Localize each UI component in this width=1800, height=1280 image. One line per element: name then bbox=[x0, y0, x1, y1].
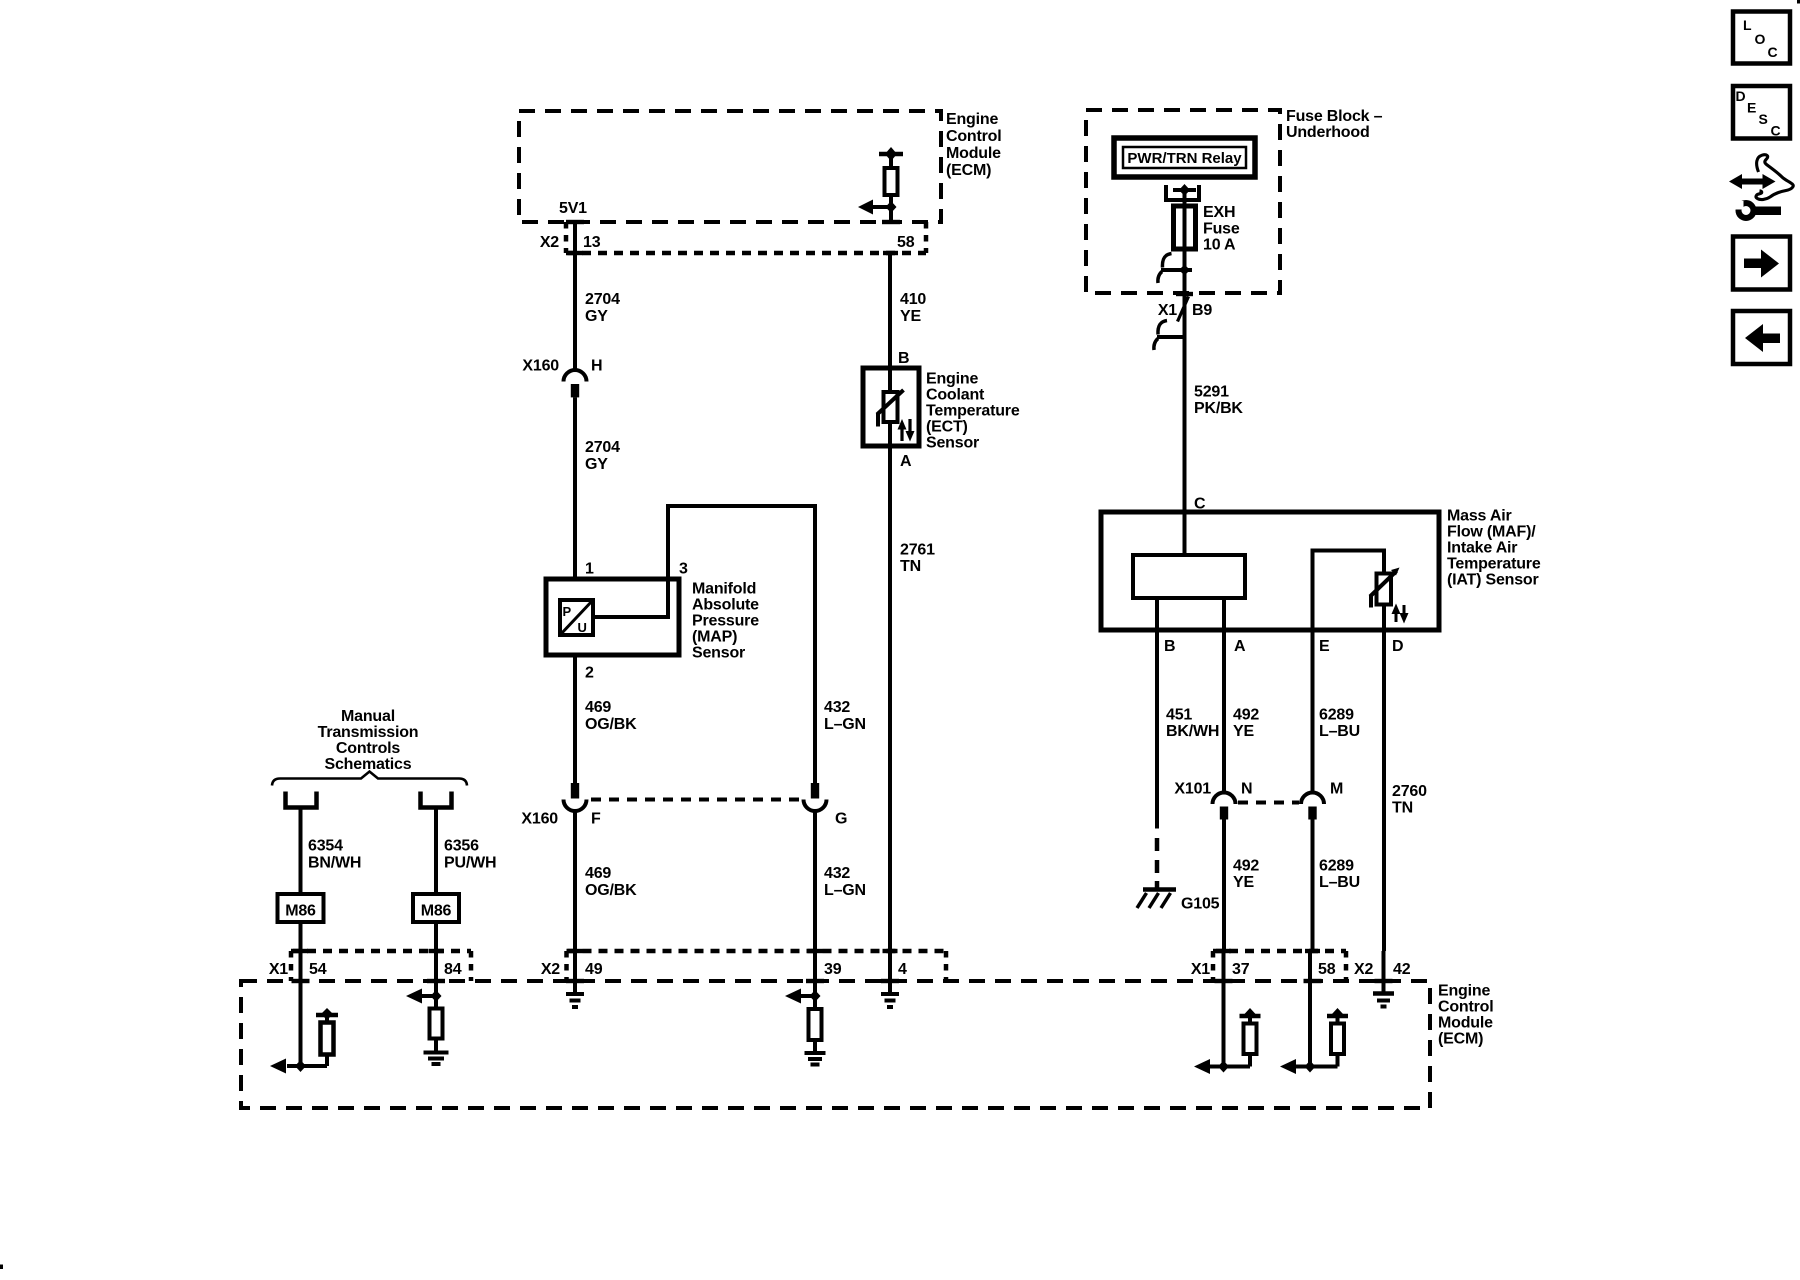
svg-text:TN: TN bbox=[1392, 800, 1413, 817]
connector X2 dotted row bottom bbox=[566, 251, 926, 256]
internal signal arrow at pin 84 bbox=[406, 989, 442, 1004]
svg-text:G: G bbox=[835, 811, 847, 828]
svg-text:E: E bbox=[1747, 100, 1756, 116]
internal pull-up at pin 37 bbox=[1224, 1008, 1261, 1067]
svg-text:58: 58 bbox=[897, 234, 915, 251]
ground G105 bbox=[1137, 890, 1176, 909]
MAF/IAT sensor box bbox=[1101, 512, 1439, 630]
wire 6354 BN/WH upper bbox=[299, 808, 303, 895]
svg-text:2704: 2704 bbox=[585, 291, 620, 308]
wire 2704 GY lower segment bbox=[573, 397, 577, 579]
SECTION: fuse block bbox=[1086, 108, 1383, 513]
wire 6289 L-BU upper bbox=[1311, 630, 1315, 794]
lower terminal hook at B9 bbox=[1154, 321, 1185, 351]
svg-text:469: 469 bbox=[585, 865, 611, 882]
wire 6354 lower bbox=[299, 922, 303, 1066]
svg-text:(MAP): (MAP) bbox=[692, 629, 737, 646]
svg-text:Pressure: Pressure bbox=[692, 613, 759, 630]
svg-text:Sensor: Sensor bbox=[926, 435, 979, 452]
wire 6356 lower bbox=[434, 922, 438, 996]
svg-text:410: 410 bbox=[900, 291, 926, 308]
tick wire 13 at ECM border bbox=[566, 220, 584, 224]
wire pin 37 stub bbox=[1222, 951, 1226, 1067]
wire label 410 YE bbox=[900, 291, 926, 325]
svg-text:37: 37 bbox=[1232, 961, 1250, 978]
splice M86 right bbox=[413, 894, 459, 922]
wire 432 L-GN from pin 3 bbox=[593, 506, 815, 783]
chassis ground at pin 39 bbox=[805, 1053, 826, 1065]
connector X101 pin M male pin bbox=[1308, 807, 1316, 820]
svg-text:L–BU: L–BU bbox=[1319, 723, 1360, 740]
wire pin 39 stub bbox=[813, 951, 817, 996]
svg-text:6289: 6289 bbox=[1319, 707, 1354, 724]
svg-text:C: C bbox=[1768, 44, 1778, 60]
wire 410 YE bbox=[888, 253, 892, 368]
ECT interior wire bbox=[888, 368, 892, 392]
svg-text:A: A bbox=[1234, 638, 1246, 655]
svg-text:Intake Air: Intake Air bbox=[1447, 540, 1517, 557]
connector X160 pin H male pin bbox=[571, 384, 579, 397]
svg-text:B: B bbox=[898, 350, 909, 367]
connector X101 pin N male pin bbox=[1220, 807, 1228, 820]
svg-text:Engine: Engine bbox=[1438, 983, 1490, 1000]
chassis ground at pin 42 bbox=[1373, 994, 1394, 1007]
wire label 2760 TN bbox=[1392, 783, 1427, 817]
svg-text:13: 13 bbox=[583, 234, 601, 251]
svg-text:Sensor: Sensor bbox=[692, 645, 745, 662]
SECTION: ECT branch bbox=[863, 253, 1020, 951]
svg-text:3: 3 bbox=[679, 561, 688, 578]
wire 451 BK/WH solid part bbox=[1155, 630, 1159, 829]
svg-text:D: D bbox=[1736, 88, 1746, 104]
internal signal arrow at pin 58 (bottom) bbox=[1280, 1059, 1316, 1074]
ECT bidirectional arrows bbox=[898, 419, 915, 442]
internal resistor to ground at pin 84 bbox=[430, 996, 443, 1052]
svg-text:Manifold: Manifold bbox=[692, 581, 756, 598]
wire label 6354 BN/WH bbox=[308, 838, 361, 872]
internal pull-up resistor at pin 58 bbox=[885, 168, 898, 195]
svg-text:PWR/TRN Relay: PWR/TRN Relay bbox=[1127, 150, 1242, 167]
svg-text:A: A bbox=[900, 453, 912, 470]
ECT thermistor element bbox=[877, 390, 904, 427]
svg-text:TN: TN bbox=[900, 558, 921, 575]
svg-text:2761: 2761 bbox=[900, 542, 935, 559]
svg-text:BK/WH: BK/WH bbox=[1166, 723, 1219, 740]
wire label 6289 L-BU (upper) bbox=[1319, 707, 1360, 741]
wire pin 4 stub bbox=[888, 951, 892, 994]
wire 451 BK/WH dashed part bbox=[1155, 838, 1160, 888]
svg-text:X1: X1 bbox=[269, 961, 288, 978]
svg-text:BN/WH: BN/WH bbox=[308, 855, 361, 872]
internal resistor to ground at pin 39 bbox=[809, 996, 822, 1053]
wire 469 OG/BK lower segment bbox=[573, 811, 577, 951]
svg-text:OG/BK: OG/BK bbox=[585, 716, 637, 733]
wire fuse to connector bbox=[1183, 249, 1187, 512]
svg-text:(IAT) Sensor: (IAT) Sensor bbox=[1447, 572, 1539, 589]
wire 6356 PU/WH upper bbox=[434, 808, 438, 895]
svg-text:432: 432 bbox=[824, 699, 850, 716]
tick wire 58 at ECM border bbox=[882, 220, 900, 224]
svg-text:2704: 2704 bbox=[585, 439, 620, 456]
connector X101 dashed tie line N-M bbox=[1238, 801, 1299, 805]
connector X160 pin H female arc bbox=[564, 370, 587, 382]
wire label 6289 L-BU (lower) bbox=[1319, 858, 1360, 892]
wire label 6356 PU/WH bbox=[444, 838, 496, 872]
tick wire at fuse block border bbox=[1176, 292, 1193, 296]
svg-text:S: S bbox=[1759, 111, 1768, 127]
label Manifold Absolute Pressure (MAP) Sensor bbox=[692, 581, 759, 662]
svg-text:X1: X1 bbox=[1158, 302, 1177, 319]
svg-text:Fuse: Fuse bbox=[1203, 221, 1240, 238]
SECTION: manual transmission branch bbox=[272, 708, 496, 1066]
svg-text:O: O bbox=[1755, 31, 1766, 47]
svg-text:H: H bbox=[591, 358, 602, 375]
svg-text:X2: X2 bbox=[540, 234, 559, 251]
internal signal arrow at pin 37 bbox=[1194, 1059, 1229, 1074]
wire pin A inside sensor bbox=[1222, 598, 1226, 630]
svg-text:49: 49 bbox=[585, 961, 603, 978]
back arrow nav box bbox=[1733, 311, 1790, 364]
svg-text:Mass Air: Mass Air bbox=[1447, 508, 1512, 525]
label Manual Transmission Controls Schematics bbox=[318, 708, 419, 773]
svg-text:492: 492 bbox=[1233, 707, 1259, 724]
svg-text:(ECM): (ECM) bbox=[1438, 1031, 1483, 1048]
svg-text:39: 39 bbox=[824, 961, 842, 978]
SECTION: wire 2704 branch + MAP sensor bbox=[521, 222, 865, 951]
svg-text:L: L bbox=[1743, 17, 1752, 33]
svg-text:P: P bbox=[563, 604, 572, 619]
wire label 492 YE (lower) bbox=[1233, 858, 1259, 892]
wire 2704 GY upper segment bbox=[573, 222, 577, 370]
connector X160 pin G female arc bbox=[804, 800, 827, 812]
svg-text:4: 4 bbox=[898, 961, 907, 978]
svg-text:Absolute: Absolute bbox=[692, 597, 759, 614]
PWR/TRN Relay box bbox=[1114, 138, 1255, 177]
wire label 432 L-GN (lower) bbox=[824, 865, 866, 899]
svg-text:Controls: Controls bbox=[336, 740, 400, 757]
wire relay to fuse bbox=[1183, 190, 1187, 206]
svg-text:5291: 5291 bbox=[1194, 384, 1229, 401]
label EXH Fuse 10 A bbox=[1203, 204, 1240, 254]
MAP sensor box bbox=[546, 579, 679, 655]
wire label 2761 TN bbox=[900, 542, 935, 576]
svg-text:Temperature: Temperature bbox=[1447, 556, 1541, 573]
svg-text:D: D bbox=[1392, 638, 1403, 655]
svg-text:84: 84 bbox=[444, 961, 462, 978]
svg-text:1: 1 bbox=[585, 561, 594, 578]
label Engine Coolant Temperature (ECT) Sensor bbox=[926, 371, 1020, 452]
label Fuse Block - Underhood bbox=[1286, 108, 1383, 141]
svg-text:54: 54 bbox=[309, 961, 327, 978]
forward arrow nav box bbox=[1733, 237, 1790, 290]
off-page branch cup left bbox=[286, 792, 317, 808]
svg-text:492: 492 bbox=[1233, 858, 1259, 875]
internal signal arrow at pin 54 bbox=[270, 1059, 306, 1074]
svg-text:OG/BK: OG/BK bbox=[585, 882, 637, 899]
svg-text:Underhood: Underhood bbox=[1286, 124, 1370, 141]
curly brace bbox=[272, 772, 467, 786]
connector X160 pin F female arc bbox=[564, 800, 587, 812]
svg-text:Control: Control bbox=[1438, 999, 1493, 1016]
svg-text:C: C bbox=[1771, 123, 1781, 139]
wire 492 YE lower bbox=[1222, 820, 1226, 952]
wire pin 42 stub bbox=[1382, 951, 1386, 993]
Fuse Block Underhood dashed box bbox=[1086, 110, 1280, 293]
wire pin 58 stub bbox=[1308, 951, 1312, 1067]
svg-text:Fuse Block –: Fuse Block – bbox=[1286, 108, 1383, 125]
svg-text:L–BU: L–BU bbox=[1319, 874, 1360, 891]
MAF element box bbox=[1133, 555, 1245, 598]
SECTION: bottom connector rows and ECM bbox=[241, 949, 1493, 1108]
chassis ground at pin 84 bbox=[424, 1053, 449, 1065]
wire C inside sensor bbox=[1183, 512, 1187, 555]
wire label 469 OG/BK (upper) bbox=[585, 699, 637, 733]
svg-text:F: F bbox=[591, 811, 601, 828]
svg-text:X101: X101 bbox=[1174, 781, 1211, 798]
connector row X1 left: dotted edges bbox=[291, 951, 471, 981]
svg-text:Engine: Engine bbox=[946, 111, 998, 128]
wire label 492 YE (upper) bbox=[1233, 707, 1259, 741]
wire resistor to junction bbox=[889, 195, 893, 222]
svg-text:451: 451 bbox=[1166, 707, 1192, 724]
wire 432 L-GN lower segment bbox=[813, 811, 817, 951]
svg-text:B9: B9 bbox=[1192, 302, 1212, 319]
internal 5V reference: supply T-bar at pin 58 bbox=[879, 147, 903, 168]
wire pin 49 stub bbox=[573, 951, 577, 994]
svg-text:YE: YE bbox=[1233, 874, 1254, 891]
svg-text:X2: X2 bbox=[541, 961, 560, 978]
internal pull-up at pin 58 (bottom) bbox=[1310, 1008, 1348, 1067]
svg-text:6289: 6289 bbox=[1319, 858, 1354, 875]
IAT thermistor element bbox=[1370, 568, 1400, 608]
relay output terminal cup bbox=[1166, 184, 1199, 200]
svg-text:2760: 2760 bbox=[1392, 783, 1427, 800]
svg-text:(ECM): (ECM) bbox=[946, 162, 991, 179]
fuse EXH 10A bbox=[1174, 206, 1196, 249]
svg-text:N: N bbox=[1241, 781, 1252, 798]
tick wire 58 at row bottom bbox=[883, 251, 898, 255]
ticks at row top crossings bbox=[293, 949, 1320, 953]
svg-text:GY: GY bbox=[585, 456, 608, 473]
label Engine Control Module (ECM) top bbox=[946, 111, 1001, 179]
svg-text:469: 469 bbox=[585, 699, 611, 716]
connector X160 dashed tie line F-G bbox=[591, 798, 799, 802]
svg-text:Coolant: Coolant bbox=[926, 387, 985, 404]
svg-text:Schematics: Schematics bbox=[325, 756, 412, 773]
svg-text:Transmission: Transmission bbox=[318, 724, 419, 741]
connector X1 B9 labels bbox=[1158, 302, 1213, 319]
SECTION: top ECM bbox=[519, 111, 1001, 222]
svg-text:X1: X1 bbox=[1191, 961, 1210, 978]
label Engine Control Module (ECM) bottom bbox=[1438, 983, 1493, 1048]
svg-text:U: U bbox=[578, 620, 587, 635]
svg-text:YE: YE bbox=[900, 308, 921, 325]
wrench/double-arrow icon bbox=[1729, 155, 1793, 218]
fuse block terminal hook bbox=[1158, 254, 1192, 284]
wire label 2704 GY (upper) bbox=[585, 291, 620, 325]
wire label 2704 GY (lower) bbox=[585, 439, 620, 473]
wire label 432 L-GN (upper) bbox=[824, 699, 866, 733]
svg-text:42: 42 bbox=[1393, 961, 1411, 978]
svg-text:PK/BK: PK/BK bbox=[1194, 400, 1243, 417]
pin letters B A E D bbox=[1164, 638, 1403, 655]
svg-text:E: E bbox=[1319, 638, 1330, 655]
svg-text:M86: M86 bbox=[421, 903, 452, 920]
wire 2761 TN bbox=[888, 446, 892, 951]
wire label 469 OG/BK (lower) bbox=[585, 865, 637, 899]
internal pull-up at pin 54 bbox=[301, 1008, 339, 1066]
svg-text:10 A: 10 A bbox=[1203, 237, 1236, 254]
internal signal arrow at pin 58 bbox=[858, 200, 897, 215]
svg-text:Flow (MAF)/: Flow (MAF)/ bbox=[1447, 524, 1536, 541]
svg-text:6354: 6354 bbox=[308, 838, 343, 855]
ECT sensor box bbox=[863, 368, 919, 446]
connector row X2 middle: dotted edges bbox=[567, 951, 947, 981]
connector X101 pin N arc bbox=[1213, 793, 1236, 804]
wire 492 YE upper bbox=[1222, 630, 1226, 794]
connector X101 pin M arc bbox=[1301, 793, 1324, 804]
wire pin B inside sensor bbox=[1155, 598, 1159, 630]
chassis ground at pin 49 bbox=[566, 994, 584, 1007]
wire 2760 TN bbox=[1382, 630, 1386, 951]
svg-text:YE: YE bbox=[1233, 723, 1254, 740]
off-page branch cup right bbox=[421, 792, 452, 808]
SECTION: MAF IAT sensor bbox=[1101, 508, 1541, 656]
wire 469 OG/BK from pin 2 bbox=[573, 655, 577, 783]
svg-text:(ECT): (ECT) bbox=[926, 419, 968, 436]
connector row X1 right: dotted edges bbox=[1213, 951, 1346, 981]
label Mass Air Flow (MAF)/ Intake Air Temperature (IAT) Sensor bbox=[1447, 508, 1541, 589]
ECM (top) dashed module box bbox=[519, 111, 941, 222]
chassis ground at pin 4 bbox=[881, 994, 899, 1007]
connector X2 dotted row right edge bbox=[924, 222, 929, 253]
SECTION: right side icons bbox=[1729, 12, 1793, 365]
svg-text:X160: X160 bbox=[521, 811, 558, 828]
svg-text:Manual: Manual bbox=[341, 708, 395, 725]
svg-text:B: B bbox=[1164, 638, 1175, 655]
SECTION: below MAF wires + X101 bbox=[1137, 630, 1427, 951]
internal signal arrow at pin 39 bbox=[785, 989, 821, 1004]
svg-text:X2: X2 bbox=[1354, 961, 1373, 978]
ECM (bottom) dashed module box bbox=[241, 981, 1430, 1108]
wire label 451 BK/WH bbox=[1166, 707, 1219, 741]
ticks at ECM border crossings bbox=[292, 979, 1393, 983]
svg-text:2: 2 bbox=[585, 665, 594, 682]
svg-text:Temperature: Temperature bbox=[926, 403, 1020, 420]
svg-text:G105: G105 bbox=[1181, 896, 1220, 913]
svg-text:432: 432 bbox=[824, 865, 850, 882]
svg-text:Control: Control bbox=[946, 128, 1001, 145]
connector X160 pin G male pin bbox=[811, 783, 819, 799]
svg-text:Module: Module bbox=[1438, 1015, 1493, 1032]
IAT bidirectional arrows bbox=[1392, 604, 1409, 624]
connector X1/B9 slash bbox=[1178, 297, 1189, 322]
svg-text:L–GN: L–GN bbox=[824, 882, 866, 899]
svg-text:PU/WH: PU/WH bbox=[444, 855, 496, 872]
svg-text:X160: X160 bbox=[522, 358, 559, 375]
DESC nav box bbox=[1733, 86, 1790, 139]
svg-text:EXH: EXH bbox=[1203, 204, 1235, 221]
MAP P/U transducer box bbox=[560, 600, 593, 635]
svg-text:M86: M86 bbox=[285, 903, 316, 920]
svg-text:GY: GY bbox=[585, 308, 608, 325]
IAT internal loop wire E bbox=[1313, 551, 1385, 631]
wire 6289 L-BU lower bbox=[1311, 820, 1315, 952]
svg-text:6356: 6356 bbox=[444, 838, 479, 855]
SECTION: top connector row X2 bbox=[540, 220, 926, 255]
svg-text:L–GN: L–GN bbox=[824, 716, 866, 733]
IAT wire to pin D bbox=[1382, 604, 1386, 630]
svg-text:Engine: Engine bbox=[926, 371, 978, 388]
svg-text:5V1: 5V1 bbox=[559, 200, 587, 217]
connector X160 pin F male pin bbox=[571, 783, 579, 799]
LOC nav box bbox=[1733, 12, 1790, 64]
connector X2 dotted row left edge bbox=[564, 222, 569, 253]
svg-text:58: 58 bbox=[1318, 961, 1336, 978]
svg-text:Module: Module bbox=[946, 145, 1001, 162]
splice M86 left bbox=[278, 894, 324, 922]
svg-text:M: M bbox=[1330, 781, 1343, 798]
tick wire 13 at row bottom bbox=[568, 251, 583, 255]
wire label 5291 PK/BK bbox=[1194, 384, 1243, 418]
